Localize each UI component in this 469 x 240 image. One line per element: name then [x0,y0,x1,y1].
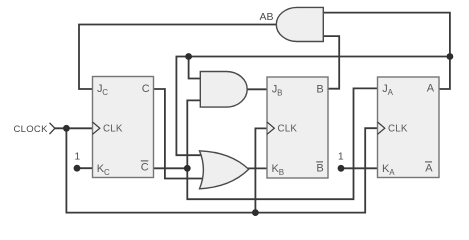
wire C-bar output [154,167,188,169]
wire C-bar to J_A [187,88,377,199]
svg-text:A: A [425,163,433,175]
wire clock bus to CLK A [66,128,377,212]
wire AB output to J_C [79,25,278,90]
svg-text:CLK: CLK [388,123,408,134]
svg-text:CLK: CLK [278,123,298,134]
svg-text:C: C [102,88,108,97]
svg-text:B: B [277,88,282,97]
AND gate U2 (J_B logic), right-facing [200,72,247,108]
svg-text:1: 1 [75,152,81,163]
flip-flop U4 box (C) [93,77,154,178]
junction dot A bus to AND [185,53,192,60]
svg-text:B: B [316,83,323,95]
svg-text:B: B [279,168,284,177]
svg-text:C: C [142,83,150,95]
junction dot A bus / A output [447,53,454,60]
wire 1 to K_C [77,167,93,169]
flip-flop U6 box (A) [378,77,440,178]
wire C-bar to AND bottom input [187,100,201,168]
svg-text:C: C [141,162,149,174]
wire OR output to K_B [249,167,267,169]
junction dot CLOCK [63,125,70,132]
OR gate U3 (K_B logic), right-facing [200,151,249,189]
svg-text:CLOCK: CLOCK [14,124,49,135]
wire C output to OR bottom input [154,89,206,179]
wire CLOCK to CLK C [55,127,93,129]
svg-text:A: A [427,83,435,95]
wire A branch to AND top input [189,57,202,79]
terminal dot K_C [74,165,81,172]
wire AND output to J_B [247,88,267,90]
CLK edge triangle FF B [267,122,274,134]
svg-text:A: A [388,88,394,97]
svg-text:AB: AB [260,11,274,23]
svg-text:A: A [389,168,395,177]
svg-text:CLK: CLK [103,123,123,134]
junction dot clock bus [252,209,259,216]
wire 1 to K_A [341,167,378,169]
svg-text:B: B [316,163,323,175]
wire clock branch to CLK B [255,128,267,212]
CLK edge triangle FF A [378,122,385,134]
wire A bus to OR top input [176,57,450,156]
wire A output up to top AND input A [323,13,450,89]
svg-text:C: C [104,168,110,177]
svg-text:1: 1 [338,152,344,163]
CLK edge triangle FF C [93,122,100,134]
CLOCK input chevron [50,123,55,134]
wire B output up to top AND input B [323,36,340,89]
AND gate U1 (AB), left-facing [276,7,323,41]
terminal dot K_A [338,165,345,172]
junction dot C-bar [184,165,191,172]
flip-flop U5 box (B) [267,77,328,178]
